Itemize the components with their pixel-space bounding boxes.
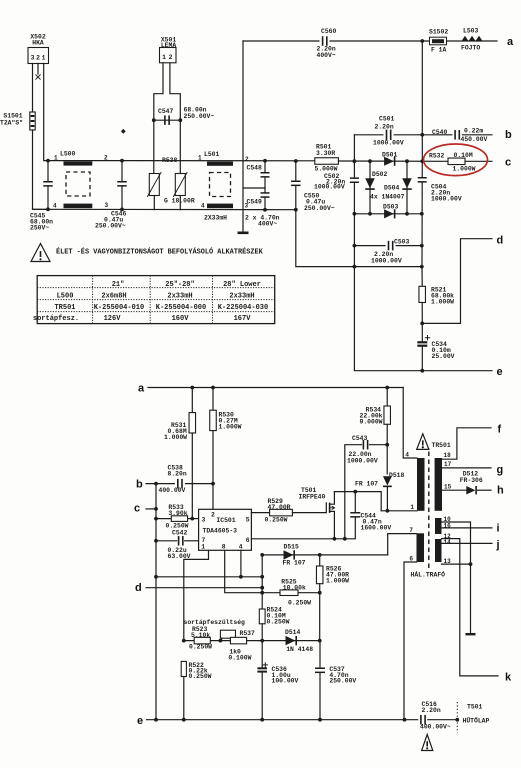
wire R530 to IC pin2 — [212, 431, 214, 510]
secondary ground wire — [470, 564, 472, 633]
svg-text:1000.00V: 1000.00V — [314, 183, 345, 190]
svg-text:K-255004-010: K-255004-010 — [94, 304, 144, 312]
svg-text:4: 4 — [53, 203, 57, 210]
capacitor C542 row to IC pin7 — [156, 540, 177, 542]
junction C544 top — [353, 490, 357, 494]
svg-text:1.000W: 1.000W — [219, 424, 242, 431]
IC pin4 row wire — [240, 550, 242, 577]
fuse S1501 — [30, 112, 35, 130]
svg-text:e: e — [137, 715, 143, 727]
bus a wire (top section) — [243, 40, 497, 42]
wire X501 pin1 down — [154, 63, 163, 120]
transformer secondary winding 18-17-15 — [435, 458, 442, 511]
svg-text:4: 4 — [405, 452, 409, 459]
svg-text:1: 1 — [162, 54, 166, 61]
svg-text:0.250W: 0.250W — [288, 600, 311, 607]
pin 10 wire — [442, 522, 471, 564]
svg-text:IRFPE40: IRFPE40 — [299, 494, 326, 501]
series resistor box on row — [230, 637, 246, 644]
svg-text:15: 15 — [444, 483, 452, 490]
warning triangle at C516 — [422, 735, 433, 751]
svg-text:L500: L500 — [57, 293, 74, 301]
svg-text:400V~: 400V~ — [258, 220, 277, 227]
resistor R534 from bus a — [385, 386, 389, 390]
svg-text:L501: L501 — [204, 151, 220, 158]
svg-text:3.30R: 3.30R — [316, 150, 335, 157]
svg-text:18: 18 — [444, 452, 452, 459]
svg-text:25"-28": 25"-28" — [165, 281, 194, 289]
bus a wire (bottom section) — [148, 387, 403, 389]
svg-text:0.250W: 0.250W — [265, 517, 288, 524]
svg-text:2: 2 — [245, 156, 249, 163]
pin 13 wire to secondary ground — [442, 563, 471, 565]
svg-text:13: 13 — [444, 558, 452, 565]
capacitor C536 (electrolytic) — [261, 641, 263, 667]
svg-text:j: j — [496, 539, 500, 551]
svg-text:17: 17 — [444, 461, 452, 468]
svg-text:1000.00V: 1000.00V — [373, 140, 404, 147]
svg-text:1000.00V: 1000.00V — [371, 258, 402, 265]
svg-text:0.250W: 0.250W — [189, 644, 212, 651]
svg-text:2: 2 — [36, 55, 40, 62]
junction dot diamond near L500 — [121, 129, 126, 134]
inductor L501 bottom winding — [207, 204, 233, 209]
transformer TR501 core dashed line — [428, 452, 430, 569]
svg-text:C542: C542 — [172, 530, 188, 537]
capacitor C504 on right leg — [421, 161, 423, 176]
junction D514 row end — [318, 639, 322, 643]
capacitor C537 — [319, 641, 321, 667]
svg-text:TR501: TR501 — [54, 304, 75, 312]
transformer secondary winding 10-16 — [435, 518, 442, 534]
svg-text:D502: D502 — [372, 171, 388, 178]
svg-text:D514: D514 — [285, 629, 301, 636]
e bus wire (bottom) — [147, 719, 419, 721]
junction R526 top — [318, 553, 322, 557]
junction dots bridge rail — [353, 212, 357, 216]
wire gate of T501 — [292, 503, 326, 513]
inductor L503 — [462, 36, 483, 41]
svg-text:5.000W: 5.000W — [315, 166, 338, 173]
svg-text:100.00V: 100.00V — [272, 678, 299, 685]
svg-text:400V~: 400V~ — [317, 52, 336, 59]
svg-text:0.250W: 0.250W — [189, 673, 212, 680]
right leg continues to R521 — [421, 267, 423, 287]
transformer primary winding pins 4-1 — [417, 458, 425, 511]
drain wire to transformer pin1 row — [334, 492, 381, 511]
svg-text:sortápfesz.: sortápfesz. — [33, 315, 79, 323]
resistor R533 row to IC pin3 — [156, 518, 171, 520]
svg-text:L500: L500 — [60, 151, 76, 158]
top mains bus (node to L500/L501/rectifier) — [48, 160, 315, 162]
fuse S1502 — [430, 37, 447, 45]
resistor R532 (highlighted) — [448, 158, 465, 165]
svg-text:8.20n: 8.20n — [168, 471, 187, 478]
svg-text:25.00V: 25.00V — [432, 353, 455, 360]
svg-text:C503: C503 — [394, 239, 410, 246]
pin 18 wire to node f — [442, 428, 491, 459]
bridge left leg with C502 — [353, 161, 355, 177]
svg-text:2x6m8H: 2x6m8H — [101, 293, 126, 301]
svg-text:R532: R532 — [429, 153, 445, 160]
svg-text:8: 8 — [222, 544, 226, 551]
svg-text:1.000W: 1.000W — [431, 299, 454, 306]
warning triangle TR501 — [417, 434, 429, 450]
pin 14 wire to node j — [442, 542, 492, 544]
IC U IC501 TDA4605-3 body — [199, 509, 252, 550]
svg-text:4: 4 — [239, 544, 243, 551]
inductor L500 bottom winding — [64, 204, 93, 209]
svg-text:21": 21" — [112, 281, 125, 289]
capacitor C503 — [386, 241, 396, 251]
transistor T501 MOSFET symbol — [329, 503, 331, 513]
PTC thermistor R538 element b — [175, 174, 185, 196]
node c wire to divider column — [146, 508, 156, 510]
svg-text:C549: C549 — [247, 199, 263, 206]
svg-text:250V~: 250V~ — [30, 225, 49, 232]
svg-text:1600.00V: 1600.00V — [361, 525, 392, 532]
chassis ground symbol — [238, 232, 249, 235]
heatsink boundary dotted line — [456, 702, 458, 733]
diode D501 — [384, 157, 394, 166]
svg-text:TDA4605-3: TDA4605-3 — [203, 528, 238, 535]
svg-text:3: 3 — [202, 516, 206, 523]
svg-text:2X33mH: 2X33mH — [204, 215, 227, 222]
highlight ellipse around R532 — [424, 144, 488, 176]
svg-text:0.250W: 0.250W — [166, 522, 189, 529]
junction right leg lower return — [420, 265, 424, 269]
bottom mains bus — [33, 208, 297, 210]
svg-text:D515: D515 — [284, 543, 300, 550]
svg-text:f: f — [498, 423, 502, 435]
svg-text:R538: R538 — [162, 157, 178, 164]
svg-text:D501: D501 — [382, 152, 398, 159]
svg-text:4x 1N4007: 4x 1N4007 — [370, 194, 405, 201]
divider column wire b to e bus — [155, 484, 157, 720]
variants table frame — [37, 276, 275, 324]
bus c wire from R501 to node c — [338, 160, 448, 162]
D515 row wire — [262, 554, 388, 556]
svg-text:K-255004-000: K-255004-000 — [156, 304, 206, 312]
svg-text:1000.00V: 1000.00V — [347, 458, 378, 465]
svg-text:450.00V: 450.00V — [461, 136, 488, 143]
svg-text:28" Lower: 28" Lower — [223, 281, 261, 289]
svg-text:2.20n: 2.20n — [375, 123, 394, 130]
node b row with C538 — [146, 483, 213, 485]
inductor L500 core (dashed) — [66, 172, 90, 196]
bus a vertical from a to c — [421, 41, 423, 161]
svg-text:i: i — [497, 523, 500, 535]
svg-text:C548: C548 — [247, 165, 263, 172]
svg-text:126V: 126V — [104, 315, 122, 323]
capacitor C501 — [384, 130, 394, 141]
svg-text:160V: 160V — [172, 315, 190, 323]
svg-text:HŰTŐLAP: HŰTŐLAP — [463, 717, 490, 725]
svg-text:250.00V~: 250.00V~ — [184, 113, 215, 120]
capacitor C545 — [47, 161, 49, 182]
svg-text:D504: D504 — [384, 185, 400, 192]
svg-text:d: d — [135, 582, 142, 594]
svg-text:T2A"S": T2A"S" — [0, 120, 23, 127]
capacitor C560 in bus a — [320, 36, 330, 46]
svg-text:4: 4 — [201, 202, 205, 209]
svg-text:167V: 167V — [234, 315, 252, 323]
node d wire (top) — [420, 322, 424, 326]
connector X502 — [28, 48, 49, 64]
svg-text:k: k — [505, 671, 512, 683]
svg-text:C543: C543 — [352, 435, 368, 442]
svg-text:400.00V: 400.00V — [159, 487, 186, 494]
svg-text:2: 2 — [211, 511, 215, 518]
inductor L501 top winding — [207, 162, 233, 166]
svg-text:K-225004-030: K-225004-030 — [218, 304, 268, 312]
capacitor C549 — [264, 188, 266, 193]
svg-text:10.00k: 10.00k — [283, 584, 306, 591]
svg-text:sortápfeszültség: sortápfeszültség — [184, 619, 246, 626]
svg-text:D518: D518 — [389, 472, 405, 479]
capacitor C534 (electrolytic) — [417, 341, 427, 343]
svg-text:L503: L503 — [463, 28, 479, 35]
wire Y-cap midpoint to earth — [243, 187, 265, 189]
diode D515 — [284, 550, 294, 559]
R524 column from D515 row — [261, 555, 263, 609]
resistor R531 — [190, 386, 194, 390]
resistor R529 from IC pin5 — [251, 512, 269, 514]
svg-text:C540: C540 — [432, 129, 448, 136]
bottom bus corner down to lower return — [294, 208, 298, 212]
svg-text:2: 2 — [169, 54, 173, 61]
resistor R523 — [194, 637, 210, 644]
svg-text:2.20n: 2.20n — [422, 707, 441, 714]
transformer primary winding pins 7-6 — [417, 533, 425, 562]
pin 16 wire to node i — [442, 527, 492, 529]
earth wire from bus a down to chassis ground — [242, 41, 244, 232]
wire C501 left leg down to bus c — [353, 135, 355, 161]
PTC thermistor R538 element a — [149, 174, 159, 196]
svg-text:1.000W: 1.000W — [164, 434, 187, 441]
diode D518 — [383, 476, 392, 485]
wire X502 pin3 to fuse S1501 — [32, 64, 34, 113]
pin 6 wire down to e bus — [404, 562, 417, 720]
svg-text:1: 1 — [54, 154, 58, 161]
svg-text:7: 7 — [409, 527, 413, 534]
safety warning triangle — [31, 244, 50, 262]
svg-text:5: 5 — [246, 516, 250, 523]
svg-text:16: 16 — [444, 522, 452, 529]
wire fuse to bottom mains bus — [33, 130, 49, 209]
junction C536 top — [260, 639, 264, 643]
wire C547 right to PTC R538b — [179, 120, 181, 173]
svg-text:0.10M: 0.10M — [454, 152, 473, 159]
resistor R530 — [211, 386, 215, 390]
table inner lines — [37, 287, 275, 289]
svg-text:400.00V~: 400.00V~ — [420, 723, 451, 730]
junction dots C503 row — [353, 244, 357, 248]
svg-text:2x33mH: 2x33mH — [167, 293, 192, 301]
svg-text:3.90k: 3.90k — [168, 510, 187, 517]
svg-text:1: 1 — [198, 155, 202, 162]
diode D514 — [286, 636, 296, 645]
pin 17 wire to node g — [442, 467, 491, 469]
svg-text:FR-306: FR-306 — [460, 477, 483, 484]
capacitor C547 across degauss loop — [154, 119, 181, 121]
resistor R522 — [181, 661, 186, 676]
junction top bus at C545 — [46, 159, 50, 163]
wire C547 left to PTC R538a — [153, 120, 155, 173]
svg-text:FOJTO: FOJTO — [461, 45, 480, 52]
wire X501 pin2 down — [170, 63, 180, 120]
secondary ground symbol — [466, 633, 476, 635]
bridge bottom rail with D503 — [354, 213, 421, 215]
transformer secondary winding 12-14-13 — [435, 539, 442, 562]
svg-text:b: b — [136, 479, 143, 491]
wire R521 to C534 — [421, 303, 423, 324]
svg-text:1N 4148: 1N 4148 — [286, 646, 313, 653]
capacitor C548 — [264, 161, 266, 173]
svg-text:HKA: HKA — [32, 40, 44, 47]
svg-text:250.00V~: 250.00V~ — [95, 223, 126, 230]
junction dots on bus c — [294, 159, 298, 163]
svg-text:1: 1 — [201, 544, 205, 551]
svg-text:b: b — [505, 129, 512, 141]
IC pin6 / source return row — [251, 518, 355, 539]
svg-text:HÁL.TRAFÓ: HÁL.TRAFÓ — [411, 570, 446, 579]
svg-text:G 18.00R: G 18.00R — [164, 198, 195, 205]
svg-text:250.00V: 250.00V — [329, 678, 356, 685]
wire bus a corner down to pin 4 — [403, 388, 417, 459]
svg-text:IC501: IC501 — [216, 517, 235, 524]
svg-text:2: 2 — [104, 154, 108, 161]
IC pin8 stem and wire to R525 — [225, 550, 320, 592]
svg-text:D503: D503 — [383, 203, 399, 210]
svg-text:h: h — [497, 484, 504, 496]
svg-text:e: e — [497, 366, 503, 378]
svg-text:1000.00V: 1000.00V — [431, 195, 462, 202]
svg-text:6: 6 — [409, 556, 413, 563]
svg-text:FR 107: FR 107 — [283, 559, 306, 566]
wire X502 pin1 down to top mains bus — [44, 64, 48, 161]
D514 row wire — [184, 640, 320, 642]
svg-text:9.000W: 9.000W — [359, 419, 382, 426]
svg-text:C501: C501 — [379, 115, 395, 122]
svg-text:c: c — [505, 157, 511, 169]
diode D504 — [406, 161, 408, 214]
junction bus-a-vertical at b row — [420, 133, 424, 137]
svg-text:TR501: TR501 — [432, 442, 451, 449]
svg-text:S1501: S1501 — [3, 113, 22, 120]
svg-text:250.00V~: 250.00V~ — [304, 205, 335, 212]
wire C501/b row — [354, 134, 492, 136]
capacitor C543 row — [345, 445, 362, 539]
capacitor C550 — [295, 161, 297, 181]
svg-text:ÉLET -ÉS VAGYONBIZTONSÁGOT BEF: ÉLET -ÉS VAGYONBIZTONSÁGOT BEFOLYÁSOLÓ A… — [56, 247, 264, 257]
capacitor C544 — [354, 492, 356, 512]
resistor R537 (bridging box) — [220, 630, 235, 638]
IC pin1 stem jog to feedback column — [184, 550, 209, 641]
svg-text:1.000W: 1.000W — [453, 165, 476, 172]
C503 row wire — [354, 245, 421, 247]
svg-text:2x33mH: 2x33mH — [229, 293, 254, 301]
svg-text:d: d — [497, 235, 504, 247]
pin 12 wire to node k — [442, 539, 499, 676]
wire to transformer pin 1 — [381, 510, 417, 512]
resistor R526 vertical — [319, 555, 321, 566]
wire X502 pin2 stub with X termination — [37, 64, 39, 75]
svg-text:FR 107: FR 107 — [355, 480, 378, 487]
svg-text:T501: T501 — [467, 704, 483, 711]
svg-text:1: 1 — [42, 55, 46, 62]
svg-text:C547: C547 — [158, 108, 174, 115]
pin 7 wire jog to D515 row — [388, 534, 417, 555]
svg-text:5.10k: 5.10k — [191, 632, 210, 639]
svg-text:g: g — [497, 464, 504, 476]
capacitor C516 in e bus — [418, 714, 428, 725]
resistor R521 — [419, 286, 426, 302]
resistor R524 — [259, 609, 265, 624]
svg-text:0.100W: 0.100W — [228, 654, 251, 661]
connector X501 — [160, 48, 177, 63]
resistor R501 — [315, 158, 339, 165]
svg-text:47.00R: 47.00R — [268, 504, 291, 511]
svg-text:R537: R537 — [240, 630, 256, 637]
svg-text:0.22m: 0.22m — [464, 127, 483, 134]
node d row — [146, 587, 262, 589]
diode D502 — [369, 161, 371, 214]
inductor L501 core (dashed) — [210, 173, 231, 197]
svg-text:c: c — [134, 503, 140, 515]
svg-text:a: a — [138, 383, 145, 395]
svg-text:1: 1 — [410, 504, 414, 511]
capacitor C546 — [120, 159, 124, 163]
svg-text:1.000W: 1.000W — [326, 578, 349, 585]
svg-text:3: 3 — [31, 55, 35, 62]
svg-text:6: 6 — [246, 537, 250, 544]
svg-text:C560: C560 — [321, 28, 337, 35]
capacitor C540 (electrolytic) in b row — [453, 130, 462, 140]
svg-text:3: 3 — [105, 202, 109, 209]
svg-text:0.250W: 0.250W — [267, 619, 290, 626]
pin 15 wire with diode D512 to node h — [442, 489, 466, 491]
svg-text:S1502: S1502 — [429, 29, 448, 36]
inductor L500 top winding — [64, 161, 93, 165]
svg-text:a: a — [507, 36, 514, 48]
svg-text:F 1A: F 1A — [431, 47, 447, 54]
svg-text:14: 14 — [444, 539, 452, 546]
resistor R525 — [280, 590, 298, 596]
node e row (top) — [354, 267, 492, 371]
